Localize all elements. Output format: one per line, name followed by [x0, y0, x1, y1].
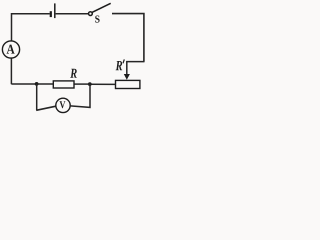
switch S pivot circle	[89, 12, 93, 16]
wire voltmeter right up to right junction	[70, 84, 90, 107]
wire slider feed to rheostat	[127, 62, 145, 75]
switch S lever	[92, 3, 111, 12]
wire left vertical ammeter down to bottom corner	[10, 58, 12, 84]
voltmeter V1 circle	[56, 98, 70, 112]
label R' prime mark	[123, 59, 124, 63]
battery B1 short thick plate	[50, 11, 52, 17]
resistor R box	[53, 81, 74, 88]
label A	[7, 45, 15, 54]
wire switch to top-right corner, down right side	[112, 14, 144, 62]
junction left node	[35, 82, 39, 86]
rheostat slider arrowhead	[124, 74, 130, 80]
battery B1 long thin plate	[54, 3, 56, 18]
rheostat R' box	[116, 80, 140, 88]
wire top-left corner: ammeter up to battery	[12, 14, 50, 41]
label V	[60, 101, 66, 108]
label R	[70, 69, 77, 78]
wire right junction to resistor R	[74, 83, 90, 85]
wire battery to switch	[56, 13, 89, 15]
junction right node	[88, 82, 92, 86]
label S	[95, 16, 99, 23]
wire rheostat to right junction	[90, 83, 116, 85]
ammeter A1 circle	[2, 41, 19, 58]
wire corner to voltmeter left	[36, 106, 56, 110]
label R'	[116, 61, 123, 70]
wire voltmeter branch down from left junction	[36, 84, 38, 110]
wire resistor to left junction to bottom-left corner	[11, 83, 53, 85]
